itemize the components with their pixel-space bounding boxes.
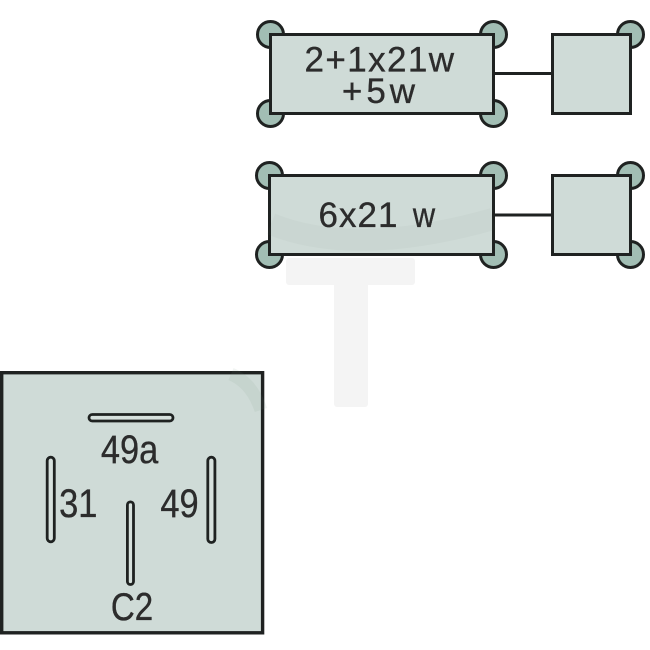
contact pin circle B2 bottom-left xyxy=(257,242,283,268)
svg-text:C2: C2 xyxy=(111,586,153,629)
watermark swoosh in box B2 xyxy=(271,219,493,240)
svg-text:49: 49 xyxy=(160,481,198,526)
pin slot 31 xyxy=(47,457,54,542)
contact pin circle L2 bottom-right xyxy=(618,242,644,268)
pin label 31 xyxy=(59,481,97,526)
lamp block B1 2+1x21w xyxy=(258,22,507,127)
contact pin circle L2 top-right xyxy=(618,163,644,189)
contact pin circle B2 top-left xyxy=(257,163,283,189)
wire W2 xyxy=(495,214,551,217)
svg-text:w: w xyxy=(412,195,435,234)
relay base U1 xyxy=(2,373,263,633)
lamp box L1 square xyxy=(553,35,631,114)
contact pin circle B1 top-left xyxy=(258,22,284,48)
svg-text:31: 31 xyxy=(59,481,97,526)
lamp box B1 xyxy=(271,35,494,114)
wire W1 xyxy=(495,72,551,75)
indicator lamp box L1 xyxy=(553,22,644,114)
contact pin circle B2 top-right xyxy=(481,163,507,189)
contact pin circle B1 bottom-right xyxy=(481,101,507,127)
pin label 49 xyxy=(160,481,198,526)
contact pin circle B2 bottom-right xyxy=(481,242,507,268)
contact pin circle B1 top-right xyxy=(481,22,507,48)
svg-text:49a: 49a xyxy=(101,427,159,472)
pin slot 49 xyxy=(208,457,215,542)
lamp block B2 6x21w xyxy=(257,163,507,268)
pin label 49a xyxy=(101,427,159,472)
contact pin circle B1 bottom-left xyxy=(258,101,284,127)
svg-text:6x21: 6x21 xyxy=(319,196,399,235)
watermark swoosh in relay base corner xyxy=(231,374,261,410)
relay base body xyxy=(2,373,263,633)
pin slot C2 xyxy=(127,502,133,585)
contact pin circle L1 top-right xyxy=(618,22,644,48)
watermark T xyxy=(286,258,415,407)
pin slot 49a xyxy=(89,415,173,422)
value label w xyxy=(412,195,435,234)
svg-text:+5w: +5w xyxy=(342,72,419,111)
pin label C2 xyxy=(111,586,153,629)
lamp box L2 square xyxy=(553,176,631,255)
lamp box B2 xyxy=(270,176,494,255)
indicator lamp box L2 xyxy=(553,163,644,268)
